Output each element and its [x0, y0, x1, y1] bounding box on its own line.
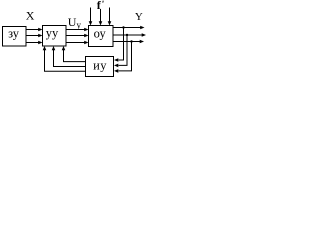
- svg-text:иу: иу: [93, 58, 107, 72]
- svg-text:зу: зу: [8, 26, 20, 40]
- svg-text:X: X: [26, 9, 35, 23]
- svg-text:Y: Y: [135, 11, 143, 23]
- svg-text:оу: оу: [94, 26, 107, 40]
- svg-text:уу: уу: [46, 26, 59, 40]
